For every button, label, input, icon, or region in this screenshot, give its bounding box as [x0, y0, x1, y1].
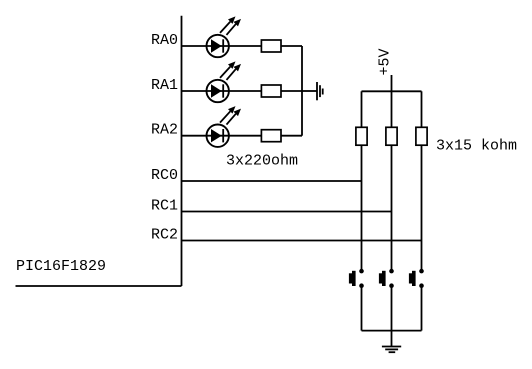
- wire column1 lower: [361, 286, 363, 331]
- resistor R4 15kohm: [356, 127, 367, 145]
- wire column1 upper: [361, 91, 363, 127]
- wire RC2 net: [182, 240, 422, 242]
- svg-text:RC1: RC1: [151, 198, 178, 215]
- wire +5V drop: [391, 75, 393, 91]
- wire RC0 net: [182, 180, 362, 182]
- svg-text:+5V: +5V: [377, 48, 394, 75]
- wire RC1 net: [182, 211, 392, 213]
- wire column2 lower: [391, 286, 393, 331]
- svg-text:RA1: RA1: [151, 77, 178, 94]
- wire column3 lower: [421, 286, 423, 331]
- wire column1 middle: [361, 145, 363, 271]
- wire LED bus vertical: [301, 46, 303, 136]
- pushbutton S1: [349, 269, 364, 288]
- svg-text:RC2: RC2: [151, 227, 178, 244]
- chip PIC16F1829 bottom edge: [16, 285, 182, 287]
- svg-text:RC0: RC0: [151, 167, 178, 184]
- ground GND1 (right-facing): [317, 82, 323, 100]
- svg-text:3x15 kohm: 3x15 kohm: [436, 138, 517, 155]
- LED D3: [207, 106, 242, 147]
- pushbutton S2: [379, 269, 394, 288]
- resistor R5 15kohm: [386, 127, 397, 145]
- wire column3 upper: [421, 91, 423, 127]
- svg-text:RA2: RA2: [151, 122, 178, 139]
- chip PIC16F1829 right edge: [181, 16, 183, 286]
- wire column2 middle: [391, 145, 393, 271]
- wire column3 middle: [421, 145, 423, 271]
- pushbutton S3: [409, 269, 424, 288]
- wire ground stub: [302, 90, 317, 92]
- LED D2: [207, 61, 242, 102]
- wire RA2 net: [182, 135, 303, 137]
- svg-text:3x220ohm: 3x220ohm: [226, 153, 298, 170]
- resistor R3 220ohm: [261, 130, 281, 142]
- svg-text:PIC16F1829: PIC16F1829: [16, 258, 106, 275]
- LED D1: [207, 16, 242, 57]
- wire RA0 net: [182, 45, 303, 47]
- wire column2 upper: [391, 91, 393, 127]
- svg-text:RA0: RA0: [151, 32, 178, 49]
- wire bottom rail: [362, 330, 422, 332]
- resistor R1 220ohm: [261, 40, 281, 52]
- wire ground drop: [391, 331, 393, 347]
- wire +5V rail: [362, 90, 422, 92]
- ground GND2 (down-facing): [382, 347, 401, 353]
- resistor R6 15kohm: [416, 127, 427, 145]
- resistor R2 220ohm: [261, 85, 281, 97]
- wire RA1 net: [182, 90, 303, 92]
